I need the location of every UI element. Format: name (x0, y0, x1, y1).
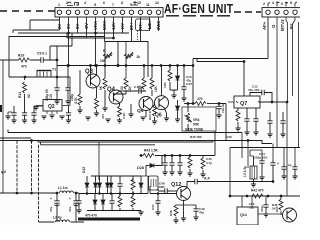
svg-text:AF+: AF+ (262, 21, 267, 30)
wire Q13 base (258, 213, 282, 215)
rail C y142 (38, 141, 213, 143)
svg-text:+: + (277, 162, 279, 166)
pot VR4 (185, 113, 192, 122)
svg-text:11: 11 (146, 3, 150, 7)
capacitor C3 (75, 193, 77, 198)
diode D25 (177, 65, 179, 67)
resistor R27 (237, 108, 239, 110)
wire C9 to node (46, 46, 57, 77)
svg-text:R19: R19 (18, 54, 24, 58)
content3 (100, 42, 148, 78)
bus y46 (50, 33, 72, 60)
heavy bar (78, 218, 140, 221)
wire pin6 drop (104, 17, 106, 42)
resistor R22 (151, 66, 153, 79)
capacitor C4 (68, 106, 70, 110)
capacitor C28 (265, 196, 267, 202)
resistor R25 470 (184, 103, 195, 105)
ground matrix right (138, 212, 143, 215)
wire VR node (117, 42, 119, 66)
wire pin8 drop (122, 17, 124, 33)
wire x38 drop (38, 145, 40, 222)
rail y60 (0, 59, 57, 61)
svg-text:5: 5 (94, 3, 96, 7)
diode D18 (139, 181, 143, 189)
svg-text:4: 4 (272, 1, 274, 5)
wire x242 drop (241, 133, 243, 159)
svg-text:L1 1m: L1 1m (58, 186, 68, 190)
matrix top wire (91, 175, 141, 177)
svg-text:2.2K: 2.2K (122, 112, 126, 119)
trimmer box outline (105, 42, 148, 78)
svg-text:3: 3 (76, 3, 78, 7)
resistor R20 (124, 78, 128, 89)
ground Q5 (140, 117, 145, 120)
unit boundary dashed line right (234, 11, 261, 13)
diode D14 (94, 181, 98, 189)
diode D15 (98, 181, 102, 189)
transistor Q3 (86, 74, 100, 88)
wire Q12 collector (187, 182, 192, 188)
svg-text:A.F: A.F (204, 177, 211, 181)
svg-text:SIDE TONE: SIDE TONE (185, 128, 204, 132)
connector J1 pins (57, 10, 160, 14)
ground C8 (11, 120, 16, 123)
IC Q7 (234, 96, 260, 108)
svg-text:4.05: 4.05 (226, 135, 232, 139)
svg-text:47µ 16V: 47µ 16V (248, 88, 261, 92)
bus y33 (18, 32, 129, 34)
svg-text:D28: D28 (137, 166, 144, 170)
connector J1 pin numbers (58, 1, 159, 7)
capacitor C19 (269, 112, 271, 118)
svg-text:4: 4 (84, 1, 86, 5)
svg-text:1µ: 1µ (288, 163, 292, 167)
wire Q12 base (150, 186, 177, 194)
wire x193 drop (192, 59, 194, 104)
resistor R23 (169, 65, 171, 67)
connector J2 pin labels rotated (262, 19, 294, 31)
content6 (137, 131, 215, 177)
unit boundary dashed line left (0, 10, 55, 12)
svg-text:6K: 6K (99, 85, 103, 90)
content2 (13, 17, 159, 66)
trimmer VR2 (124, 53, 133, 60)
svg-text:6.3V: 6.3V (186, 82, 192, 86)
IC Q2 (43, 100, 62, 112)
wire Q12 emitter (183, 201, 185, 218)
svg-text:9: 9 (130, 3, 132, 7)
wire Q3 base (90, 66, 92, 77)
svg-text:C.R 47: C.R 47 (134, 85, 144, 89)
rail y196 (230, 195, 300, 197)
svg-text:φ2: φ2 (1, 169, 7, 174)
wire R23 D25 bottom (170, 90, 178, 95)
ground Q2 left (33, 107, 38, 110)
capacitor C13 (183, 66, 185, 85)
svg-text:MTV3: MTV3 (280, 19, 285, 31)
resistor R46 (176, 204, 184, 206)
trimmer VR1 (103, 53, 112, 60)
svg-text:470: 470 (197, 97, 203, 101)
svg-text:100µ: 100µ (260, 205, 264, 212)
content5 (0, 140, 84, 222)
res cap pair (196, 156, 203, 159)
resistor R17 (95, 98, 99, 109)
junction pin7 bus (113, 37, 115, 39)
resistor R18 (79, 70, 81, 94)
svg-text:470 470: 470 470 (85, 214, 97, 218)
svg-text:R24 470: R24 470 (148, 108, 152, 120)
svg-text:C47: C47 (151, 204, 155, 210)
svg-text:10K: 10K (154, 85, 158, 92)
resistor R19 (19, 58, 30, 62)
svg-text:R45 15K: R45 15K (190, 135, 203, 139)
connector J2 top marks (268, 2, 297, 7)
capacitor C8b (33, 106, 35, 110)
label bubble LO/3W2 (136, 19, 151, 31)
svg-text:47µ: 47µ (199, 211, 204, 215)
capacitor C31 (117, 181, 122, 189)
capacitor C21 (246, 108, 248, 116)
capacitor C14 coupling (136, 88, 144, 94)
junction pin5 bus (95, 32, 97, 34)
svg-text:+: + (69, 197, 71, 201)
ground C15 (216, 115, 221, 118)
wire Q3 collector (96, 66, 98, 75)
capacitor C7 (22, 110, 27, 118)
capacitor C50 output (192, 179, 200, 185)
ground Q6 (164, 118, 169, 121)
rail y193 (0, 192, 57, 194)
diode D13 (85, 181, 89, 189)
wire Q4 base (114, 93, 127, 94)
wire Q4 emitter (119, 103, 121, 106)
svg-text:R47: R47 (275, 206, 279, 212)
wire pin7 drop (113, 17, 115, 38)
resistor R24 (153, 105, 157, 116)
wire Q6 emitter (165, 109, 167, 118)
connector J2 pin numbers (263, 1, 292, 6)
wire pin11 drop (149, 17, 151, 31)
transistor Q13 (283, 208, 297, 222)
wire pin9 drop (131, 17, 133, 42)
ground Q3 emitter (94, 113, 99, 116)
svg-text:B: B (103, 49, 106, 53)
svg-text:R46: R46 (169, 210, 173, 216)
capacitor C32 (111, 194, 113, 199)
title underline dashes (166, 15, 230, 17)
osc box outline (9, 37, 105, 78)
wire cluster top (250, 150, 262, 156)
ground C10 (54, 101, 59, 104)
wire pin3 drop (77, 17, 79, 33)
junction t1 (24, 76, 26, 78)
capacitor C11 (67, 66, 69, 86)
ground Q4 base leg (130, 104, 132, 114)
wire y155 (141, 155, 143, 157)
IC box bottom (237, 207, 258, 225)
svg-text:4.7µ: 4.7µ (206, 161, 212, 165)
svg-text:10: 10 (137, 1, 141, 5)
capacitor C10 (56, 77, 58, 85)
transformer T1 (37, 71, 51, 78)
ground R18 (77, 110, 82, 113)
svg-text:L3 3.3µ: L3 3.3µ (243, 166, 247, 177)
transistor Q6 (155, 96, 169, 110)
inductor L1 (60, 191, 74, 193)
capacitor C2 (56, 193, 58, 198)
capacitor C47 (157, 194, 159, 199)
junction node57 (56, 59, 58, 61)
sidetone box (182, 107, 216, 131)
right verticals (277, 17, 299, 148)
ground R16 (102, 108, 107, 111)
wire x31 drop (31, 141, 33, 194)
capacitor C40 (164, 155, 166, 157)
diode D16 (106, 181, 110, 189)
svg-text:VR4: VR4 (193, 118, 200, 122)
svg-text:47µ: 47µ (68, 207, 72, 212)
filter X2 (149, 176, 159, 190)
svg-text:6: 6 (103, 1, 105, 5)
J1 top small parts (67, 1, 138, 6)
connector J1 pin labels rotated (57, 20, 161, 30)
right vertical x148 (141, 176, 148, 194)
svg-text:10K: 10K (100, 59, 107, 63)
ground R27 (235, 128, 240, 131)
wire to right (219, 104, 226, 141)
connector J2 pins (266, 10, 297, 14)
capacitor C9 (38, 57, 46, 63)
svg-text:O: O (271, 24, 276, 28)
svg-text:Q4: Q4 (107, 87, 116, 93)
wire pin2 drop (68, 17, 70, 66)
svg-text:68P: 68P (159, 185, 165, 189)
svg-text:Q12: Q12 (171, 182, 181, 188)
svg-text:Q6: Q6 (155, 113, 162, 119)
left margin mark (0, 105, 2, 112)
wire x17 drop (16, 141, 18, 194)
diode D20 (102, 194, 104, 199)
svg-text:Q3: Q3 (85, 69, 94, 75)
svg-text:R42 470: R42 470 (251, 189, 264, 193)
capacitor C8 (13, 106, 15, 110)
capacitor C25 (261, 150, 263, 158)
svg-text:12: 12 (155, 1, 159, 5)
resistor R40 (132, 194, 134, 197)
svg-text:2k: 2k (137, 55, 141, 59)
ground C22 (253, 132, 258, 135)
wire x30 tap (30, 20, 60, 30)
svg-text:10µ: 10µ (249, 206, 254, 210)
content4 (182, 97, 226, 141)
svg-text:+: + (50, 197, 52, 201)
resistor R38 (131, 179, 135, 190)
connector J2 body (262, 8, 301, 17)
svg-text:9V: 9V (289, 24, 294, 29)
resistor R16 (103, 78, 107, 89)
capacitor C41 (171, 155, 173, 157)
content (0, 1, 301, 31)
svg-text:Q7: Q7 (240, 101, 247, 107)
svg-text:220µ 10V: 220µ 10V (254, 156, 268, 160)
resistor R39 (119, 194, 121, 197)
resistor R47 (280, 196, 282, 199)
content7 (229, 144, 300, 226)
svg-text:Q2: Q2 (48, 104, 55, 110)
ground Q2 bottom (49, 115, 54, 118)
rail A y132 (8, 130, 242, 133)
matrix bottom wire (87, 210, 141, 212)
wire bottom y77 (9, 76, 70, 78)
bus y38 (67, 33, 114, 38)
wire Q7 out (260, 101, 287, 103)
capacitor C42 (179, 155, 181, 157)
capacitor C15 (216, 104, 221, 112)
svg-text:R43 1.5K: R43 1.5K (144, 149, 159, 153)
matrix feeders (87, 176, 141, 181)
transistor Q12 (177, 187, 191, 201)
svg-text:D12: D12 (82, 167, 86, 173)
rail y58 right (193, 17, 268, 59)
svg-text:8: 8 (290, 1, 292, 5)
svg-text:Q5: Q5 (137, 108, 144, 114)
wire Q6 collector (161, 66, 163, 96)
rail D y144.8 (41, 142, 156, 145)
left edge rail (2, 60, 4, 193)
svg-text:4.7K: 4.7K (74, 97, 78, 104)
feeder x99 from rail (98, 142, 100, 180)
small parts row y115 under osc (8, 112, 12, 116)
wire pin12 drop (158, 17, 160, 31)
svg-text:470: 470 (21, 65, 27, 69)
svg-text:470: 470 (101, 114, 105, 119)
rail y61.5 (197, 59, 244, 62)
wire Q3 emitter (96, 87, 98, 98)
capacitor C20 (282, 112, 284, 118)
svg-text:47µ: 47µ (49, 207, 53, 212)
wire rail to Q7 (243, 62, 245, 97)
svg-text:10K: 10K (163, 82, 167, 88)
rail y65 (57, 65, 193, 67)
svg-text:AF·GEN UNIT: AF·GEN UNIT (164, 3, 233, 16)
svg-text:2: 2 (263, 2, 265, 6)
diode D17 (109, 181, 113, 189)
resistor R44 (189, 155, 191, 157)
svg-text:8: 8 (121, 1, 123, 5)
capacitor C22 (255, 108, 257, 116)
bus y30 (13, 30, 60, 33)
wire pin4 drop (86, 17, 88, 38)
resistor R43 (143, 154, 154, 158)
connector J1 body (55, 8, 163, 17)
wire pin1 drop (59, 17, 61, 30)
diode D19 (94, 194, 96, 199)
ground C21 (244, 132, 249, 135)
diode D26 (177, 100, 179, 104)
svg-text:R14: R14 (18, 92, 22, 98)
ground Q4 (117, 120, 122, 123)
ground C11 (65, 101, 70, 104)
svg-text:50K: 50K (193, 123, 200, 127)
resistor R21 (142, 78, 146, 89)
ground C30 (76, 210, 81, 213)
inductor L2 (39, 221, 85, 223)
wire x230 drop (229, 148, 231, 197)
wire x248 drop (247, 141, 249, 169)
capacitor C26 (283, 148, 285, 165)
capacitor C27 (294, 148, 296, 165)
svg-text:T1: T1 (52, 68, 56, 72)
wire pin5 drop (95, 17, 97, 66)
wire pin10 drop (140, 17, 142, 42)
wire Q5 emitter (145, 111, 147, 118)
rail B y137-140 stepped (0, 138, 272, 144)
svg-text:7: 7 (112, 3, 114, 7)
transistor Q4 (109, 90, 123, 104)
capacitor C30 (78, 194, 80, 199)
svg-text:Q14: Q14 (240, 213, 247, 217)
capacitor C49 (184, 204, 197, 206)
svg-text:L2 4µ: L2 4µ (53, 216, 62, 220)
capacitor C12 (250, 93, 259, 97)
transistor Q5 (139, 97, 153, 111)
svg-text:62: 62 (27, 94, 31, 98)
svg-text:1: 1 (58, 3, 60, 7)
matrix mid wire (79, 193, 148, 195)
resistor R14 (24, 77, 26, 80)
svg-text:C9 0.1: C9 0.1 (37, 52, 47, 56)
svg-text:6: 6 (281, 2, 283, 6)
